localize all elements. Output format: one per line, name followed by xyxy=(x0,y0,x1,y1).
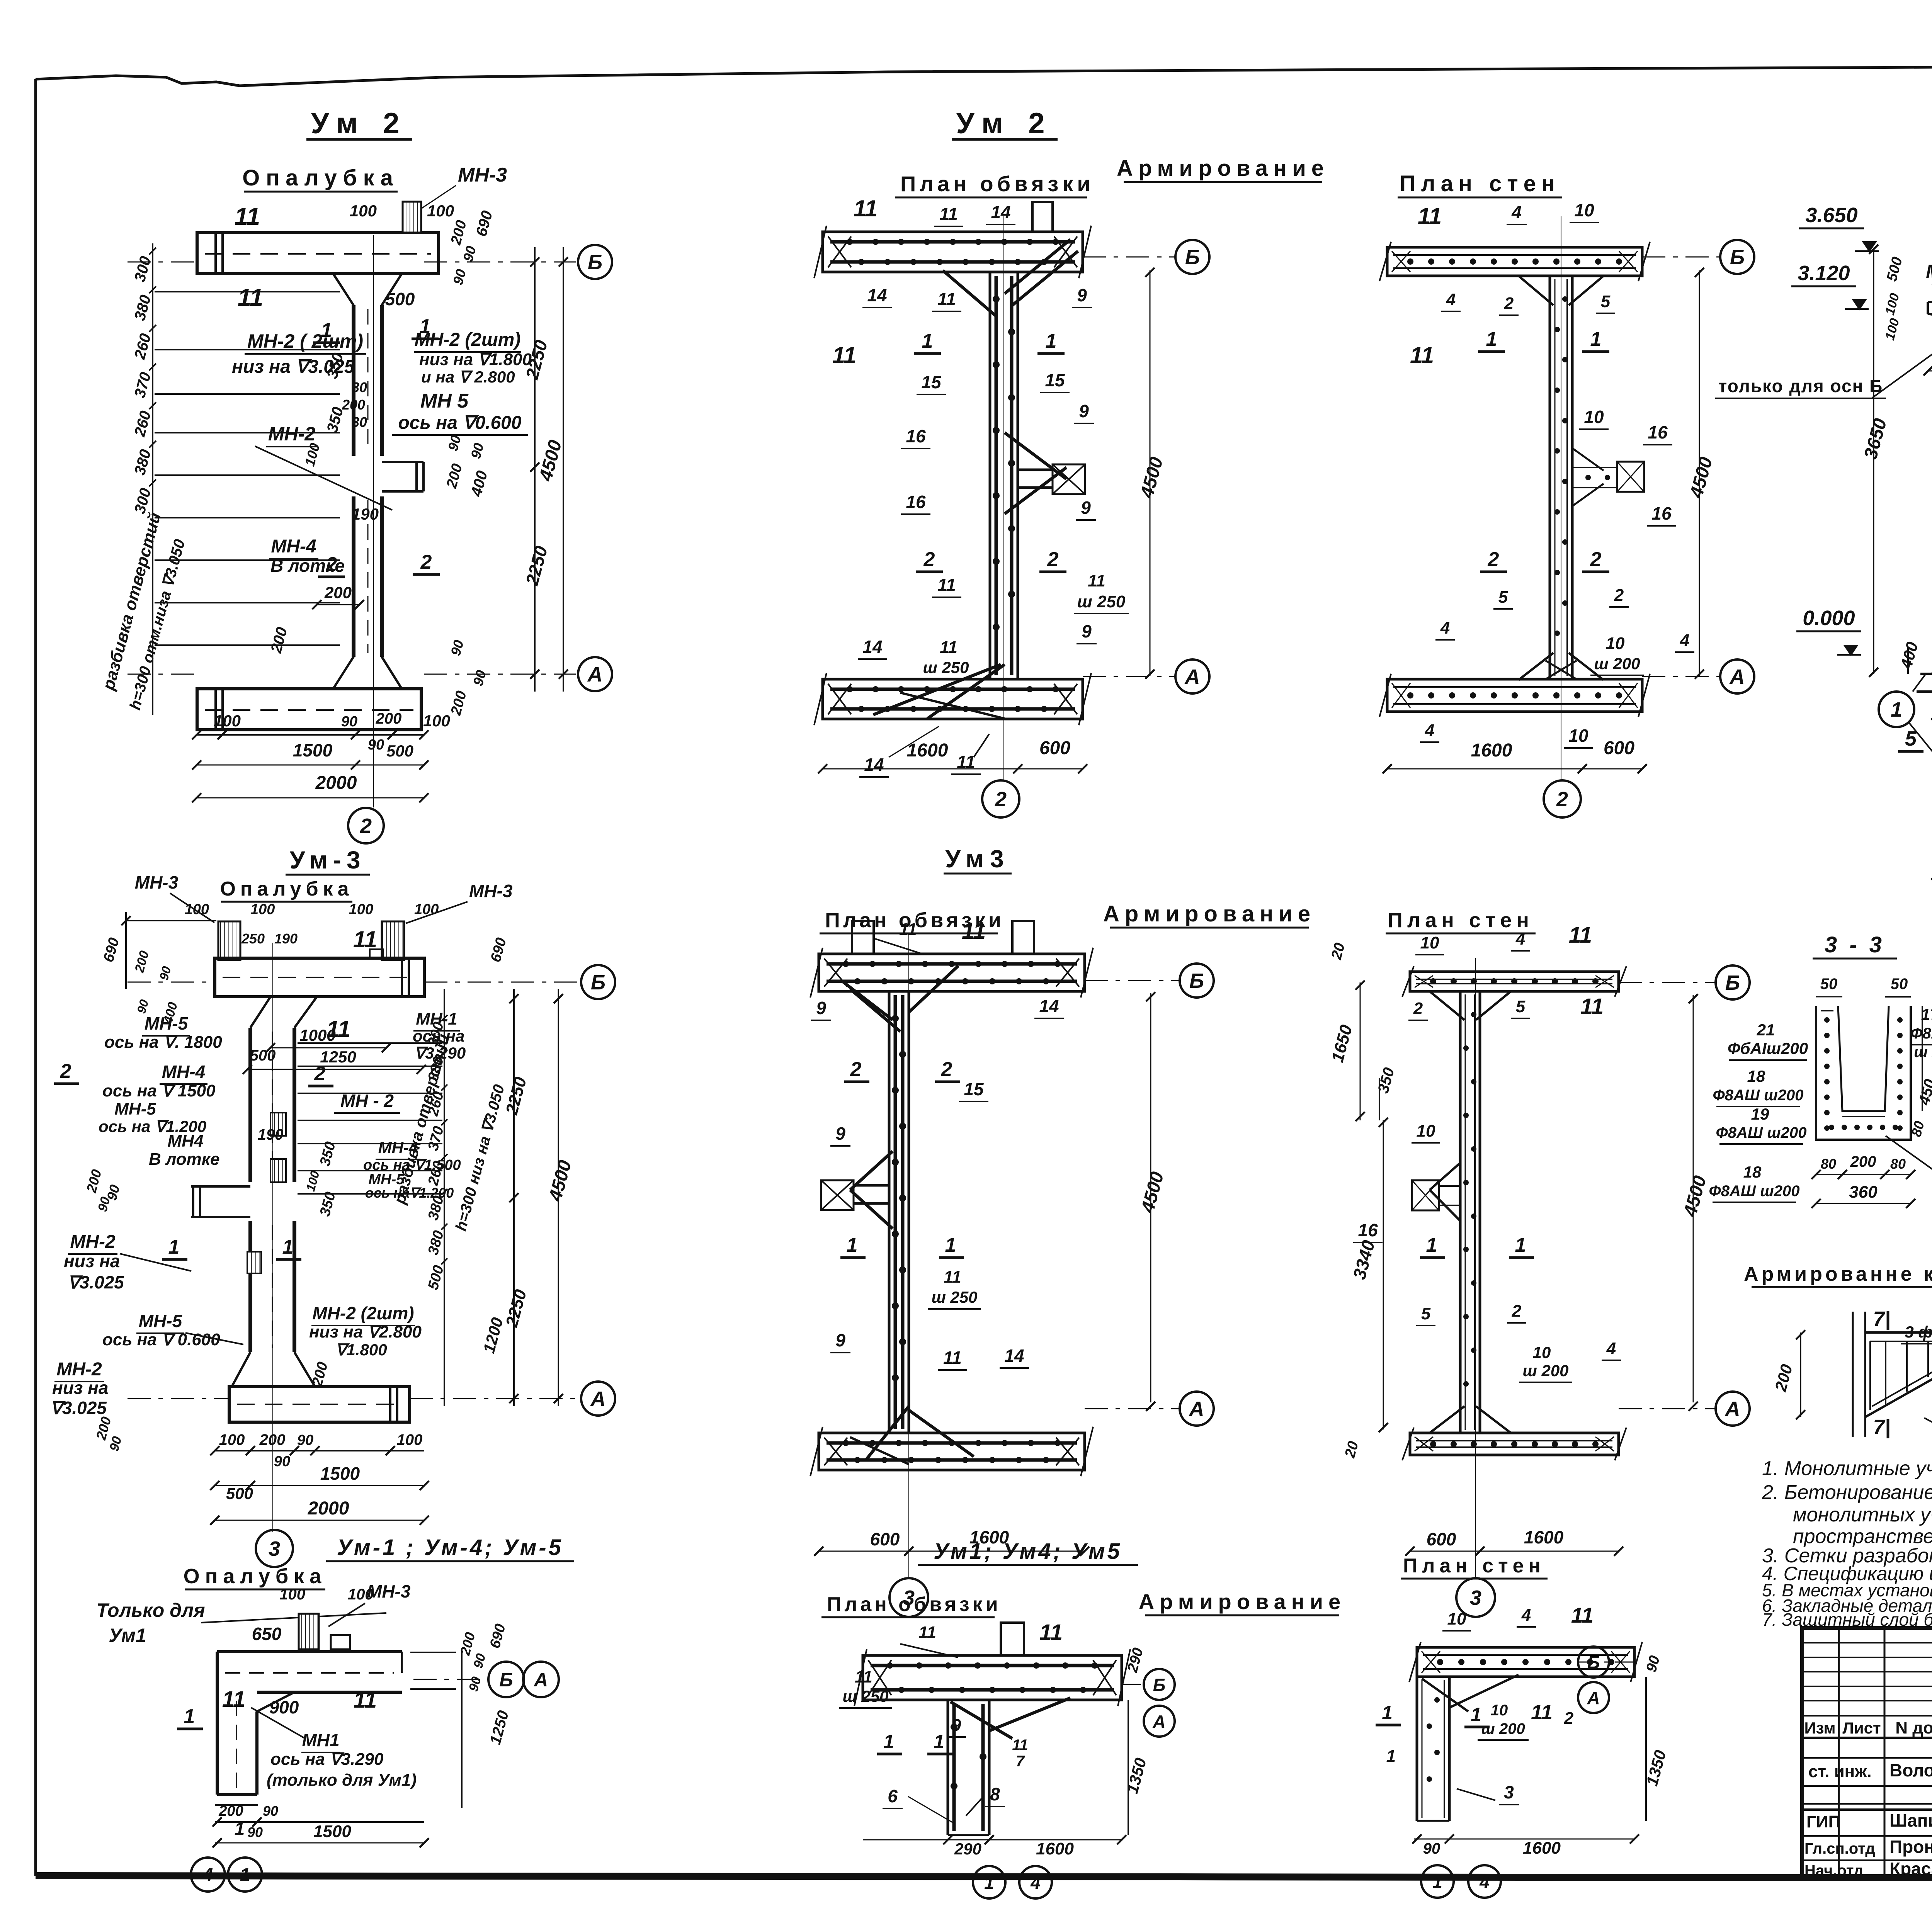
svg-text:200: 200 xyxy=(218,1803,243,1819)
col3 axis xyxy=(1642,257,1719,258)
svg-text:10: 10 xyxy=(1420,933,1439,952)
svg-text:1600: 1600 xyxy=(1036,1839,1074,1858)
row3 col2 axis bubbles xyxy=(1122,1684,1144,1685)
svg-text:2: 2 xyxy=(1512,1302,1522,1321)
svg-text:Пронин: Пронин xyxy=(1889,1837,1932,1857)
svg-text:1: 1 xyxy=(420,315,431,338)
svg-text:1: 1 xyxy=(1590,328,1602,350)
svg-text:11: 11 xyxy=(1039,1620,1063,1645)
svg-text:Армирование: Армирование xyxy=(1117,156,1329,181)
svg-text:5: 5 xyxy=(1516,997,1526,1016)
svg-text:Шапиро: Шапиро xyxy=(1889,1810,1932,1830)
svg-text:30: 30 xyxy=(352,414,367,430)
Um-3 formwork top flange xyxy=(215,958,424,997)
title block left grid rows xyxy=(1802,1642,1932,1643)
svg-text:2000: 2000 xyxy=(315,773,357,793)
Um-3 mid-left stub xyxy=(191,1185,250,1188)
wall diag braces xyxy=(1519,276,1553,305)
svg-text:80: 80 xyxy=(1821,1156,1836,1172)
Um2 rebar diagonals bottom xyxy=(873,665,1001,715)
svg-text:4: 4 xyxy=(1521,1606,1531,1625)
row2 col3 web wall xyxy=(1459,991,1462,1433)
svg-text:1: 1 xyxy=(1432,1872,1442,1892)
svg-text:3: 3 xyxy=(1504,1782,1514,1802)
svg-text:Б: Б xyxy=(1189,969,1204,993)
wall top flange xyxy=(1387,247,1642,276)
svg-text:низ на: низ на xyxy=(52,1378,109,1398)
svg-text:Армированне консоли: Армированне консоли xyxy=(1744,1263,1932,1285)
svg-text:4: 4 xyxy=(1425,721,1434,740)
svg-text:Армирование: Армирование xyxy=(1103,901,1316,926)
svg-text:5: 5 xyxy=(1421,1304,1431,1323)
svg-text:А: А xyxy=(1729,665,1745,688)
svg-text:Опалубка: Опалубка xyxy=(184,1565,327,1588)
svg-text:Ум 2: Ум 2 xyxy=(311,107,408,140)
svg-text:В лотке: В лотке xyxy=(149,1150,220,1169)
row3 col2 diagonals xyxy=(989,1698,1070,1731)
svg-text:18: 18 xyxy=(1743,1163,1762,1181)
svg-text:11: 11 xyxy=(944,1268,961,1287)
svg-text:90: 90 xyxy=(1423,1840,1440,1857)
svg-text:1: 1 xyxy=(168,1236,180,1258)
svg-text:3: 3 xyxy=(269,1537,280,1560)
col3 vertical dim 4500 xyxy=(1699,270,1700,676)
row3 col3 L wall xyxy=(1417,1647,1634,1677)
svg-text:∇1.800: ∇1.800 xyxy=(335,1341,387,1359)
svg-text:2: 2 xyxy=(420,551,432,573)
svg-text:2: 2 xyxy=(941,1058,952,1081)
row2 col3 diagonals xyxy=(1430,991,1464,1020)
row3 col1 L formwork xyxy=(299,1614,319,1649)
svg-text:1: 1 xyxy=(934,1731,944,1752)
Um2 mid stub right xyxy=(382,461,423,463)
row2 col2 axis xyxy=(1085,980,1179,981)
svg-text:9: 9 xyxy=(835,1123,845,1144)
svg-text:Только для: Только для xyxy=(96,1599,205,1621)
Um-3 web bottom taper xyxy=(232,1352,250,1387)
svg-text:900: 900 xyxy=(269,1697,299,1717)
svg-text:ГИП: ГИП xyxy=(1806,1812,1840,1831)
row2 col2 diagonals xyxy=(842,981,893,1020)
svg-text:1500: 1500 xyxy=(293,740,333,760)
svg-text:2: 2 xyxy=(1614,586,1624,605)
row2 col3 top flange wall xyxy=(1410,972,1619,991)
Um2 rebar web xyxy=(989,272,992,679)
svg-text:11: 11 xyxy=(1012,1737,1028,1754)
row2 col2 bottom dims xyxy=(819,1551,1085,1552)
svg-text:14: 14 xyxy=(1004,1346,1024,1366)
svg-text:21: 21 xyxy=(1757,1021,1775,1039)
svg-text:МН 5: МН 5 xyxy=(420,390,469,412)
svg-text:Армирование: Армирование xyxy=(1139,1589,1346,1614)
svg-text:80: 80 xyxy=(1890,1156,1906,1172)
svg-text:100: 100 xyxy=(423,712,450,730)
svg-text:11: 11 xyxy=(937,289,956,309)
svg-text:190: 190 xyxy=(258,1126,284,1143)
Um2 web bottom taper xyxy=(333,657,354,689)
svg-text:ст. инж.: ст. инж. xyxy=(1808,1762,1872,1781)
svg-text:2: 2 xyxy=(1413,999,1423,1018)
svg-text:1: 1 xyxy=(184,1705,195,1728)
pillar stub top right xyxy=(1032,202,1053,232)
svg-text:9: 9 xyxy=(816,998,826,1018)
svg-text:МН-2 ( 2шт): МН-2 ( 2шт) xyxy=(247,330,363,352)
svg-text:16: 16 xyxy=(906,426,926,446)
svg-text:16: 16 xyxy=(1648,422,1668,442)
Um-3 leaders right side xyxy=(298,1042,442,1044)
svg-text:1600: 1600 xyxy=(1471,740,1512,761)
svg-text:МН-4: МН-4 xyxy=(378,1139,418,1157)
Um2 left dimension chain xyxy=(152,243,153,715)
svg-text:1600: 1600 xyxy=(907,740,948,761)
svg-text:2. Бетонирование консолей и: 2. Бетонирование консолей и лотков вести… xyxy=(1762,1481,1932,1504)
svg-text:9: 9 xyxy=(835,1330,845,1350)
svg-text:600: 600 xyxy=(870,1529,900,1549)
row2 col2 stubs xyxy=(852,921,874,954)
Um2 col2 axis xyxy=(1083,257,1175,258)
svg-text:1500: 1500 xyxy=(313,1822,351,1841)
svg-text:11: 11 xyxy=(1418,203,1442,229)
svg-text:6: 6 xyxy=(888,1786,898,1806)
svg-text:250: 250 xyxy=(241,931,265,947)
svg-text:11: 11 xyxy=(854,195,878,221)
svg-text:А: А xyxy=(590,1387,606,1411)
svg-text:Ум1; Ум4; Ум5: Ум1; Ум4; Ум5 xyxy=(934,1539,1122,1564)
svg-text:МН-3: МН-3 xyxy=(469,881,513,901)
svg-text:4: 4 xyxy=(1680,631,1689,650)
svg-text:МН-4: МН-4 xyxy=(162,1062,205,1082)
svg-text:11: 11 xyxy=(238,284,263,311)
svg-text:План обвязки: План обвязки xyxy=(900,172,1094,196)
svg-text:3 ф 10 А Ш: 3 ф 10 А Ш xyxy=(1905,1323,1932,1341)
svg-text:Ф8АШ ш200: Ф8АШ ш200 xyxy=(1713,1087,1804,1104)
svg-text:11: 11 xyxy=(1580,994,1604,1019)
svg-text:2: 2 xyxy=(1504,294,1514,313)
row3 col3 diag xyxy=(1449,1675,1519,1708)
Um-3 formwork bottom flange xyxy=(229,1387,410,1422)
svg-text:ось на ∇. 1800: ось на ∇. 1800 xyxy=(104,1033,222,1052)
svg-text:МН-2: МН-2 xyxy=(268,423,315,445)
svg-text:4: 4 xyxy=(1606,1339,1616,1358)
svg-text:МН3: МН3 xyxy=(1926,261,1932,282)
svg-text:Б: Б xyxy=(1587,1652,1600,1672)
svg-text:2: 2 xyxy=(923,548,935,571)
svg-text:190: 190 xyxy=(274,931,298,947)
svg-text:МН-5: МН-5 xyxy=(139,1311,183,1331)
svg-text:5: 5 xyxy=(1498,588,1508,607)
svg-text:Б: Б xyxy=(591,971,605,994)
svg-text:600: 600 xyxy=(1604,738,1634,758)
row3 col2 bottom dims xyxy=(863,1839,1122,1841)
svg-text:МН - 2: МН - 2 xyxy=(340,1091,394,1111)
svg-text:10: 10 xyxy=(1533,1343,1551,1361)
svg-text:11: 11 xyxy=(832,342,856,368)
svg-text:7: 7 xyxy=(1016,1753,1025,1770)
grid axis extensions left col1 xyxy=(128,262,195,263)
svg-text:Нач.отд: Нач.отд xyxy=(1804,1862,1863,1879)
svg-text:90: 90 xyxy=(263,1803,278,1819)
svg-text:100: 100 xyxy=(279,1586,305,1603)
svg-text:100: 100 xyxy=(427,202,454,220)
svg-text:90: 90 xyxy=(297,1432,313,1448)
svg-text:600: 600 xyxy=(1427,1529,1456,1549)
svg-text:14: 14 xyxy=(1039,996,1059,1016)
svg-text:МН-5: МН-5 xyxy=(145,1013,189,1033)
svg-text:4: 4 xyxy=(1515,930,1525,948)
svg-text:290: 290 xyxy=(954,1840,981,1858)
svg-text:11: 11 xyxy=(939,204,958,224)
svg-text:ш 250: ш 250 xyxy=(842,1687,888,1705)
svg-text:Б: Б xyxy=(1725,971,1740,994)
svg-text:ось на ∇ 0.600: ось на ∇ 0.600 xyxy=(102,1330,220,1349)
svg-text:10: 10 xyxy=(1447,1609,1466,1628)
svg-text:Ум1: Ум1 xyxy=(109,1625,146,1646)
section 3-3 U channel xyxy=(1816,1006,1911,1140)
svg-text:190: 190 xyxy=(352,505,379,523)
svg-text:100: 100 xyxy=(250,901,275,918)
svg-text:600: 600 xyxy=(1039,738,1070,758)
svg-text:9: 9 xyxy=(952,1716,961,1735)
row3 col2 L rebar xyxy=(1001,1623,1024,1655)
svg-text:100: 100 xyxy=(349,901,373,918)
svg-text:5: 5 xyxy=(1601,292,1611,311)
svg-text:100: 100 xyxy=(219,1431,245,1448)
row2 col3 axis xyxy=(1619,982,1716,983)
svg-text:МН-3: МН-3 xyxy=(367,1581,411,1601)
svg-text:1: 1 xyxy=(1515,1234,1526,1256)
svg-text:ш 200: ш 200 xyxy=(1481,1720,1525,1737)
svg-text:МН-3: МН-3 xyxy=(135,872,179,892)
svg-text:1600: 1600 xyxy=(1524,1527,1564,1547)
svg-text:А: А xyxy=(1725,1397,1740,1421)
svg-text:2: 2 xyxy=(60,1060,71,1083)
svg-text:30: 30 xyxy=(352,379,367,395)
svg-text:монолитных участков стен. А: монолитных участков стен. Арматурные сте… xyxy=(1793,1504,1932,1526)
svg-text:100: 100 xyxy=(185,901,209,918)
svg-text:МН-2: МН-2 xyxy=(56,1359,102,1380)
svg-text:11: 11 xyxy=(940,638,957,657)
svg-text:15: 15 xyxy=(1045,370,1065,390)
svg-text:Ф8АШ: Ф8АШ xyxy=(1910,1025,1932,1042)
svg-text:90: 90 xyxy=(274,1453,290,1470)
svg-text:11: 11 xyxy=(1569,923,1592,948)
svg-text:1: 1 xyxy=(1891,698,1902,721)
svg-text:1: 1 xyxy=(1486,328,1497,350)
svg-text:200: 200 xyxy=(324,583,352,602)
svg-text:100: 100 xyxy=(414,901,439,918)
svg-text:14: 14 xyxy=(864,755,884,775)
wall web xyxy=(1549,276,1551,679)
svg-text:90: 90 xyxy=(247,1824,263,1840)
svg-text:2: 2 xyxy=(995,788,1007,811)
svg-text:ш 200: ш 200 xyxy=(1594,654,1640,673)
svg-text:ось на ∇ 1500: ось на ∇ 1500 xyxy=(102,1081,216,1100)
svg-text:200: 200 xyxy=(259,1431,286,1448)
svg-text:Ф8АШ ш200: Ф8АШ ш200 xyxy=(1716,1124,1807,1141)
Um2 formwork bottom flange xyxy=(197,689,421,730)
svg-text:4: 4 xyxy=(1030,1873,1041,1893)
svg-text:1: 1 xyxy=(240,1865,250,1885)
svg-text:ш 200: ш 200 xyxy=(1522,1361,1568,1380)
svg-text:100: 100 xyxy=(214,712,241,730)
svg-text:200: 200 xyxy=(1850,1153,1876,1170)
console detail drawing xyxy=(1852,1312,1854,1437)
svg-text:А: А xyxy=(1152,1711,1165,1732)
svg-text:Лист: Лист xyxy=(1842,1719,1881,1737)
section 1-1 dim vertical xyxy=(1873,248,1874,674)
svg-text:Опалубка: Опалубка xyxy=(242,165,399,190)
row2 col2 bottom flange xyxy=(819,1433,1085,1470)
svg-text:2: 2 xyxy=(326,553,337,576)
Um2 mid stub right rebar xyxy=(1053,464,1085,494)
grid axis verticals row2 xyxy=(272,943,273,1532)
Um-3 web taper xyxy=(250,997,270,1028)
svg-text:19: 19 xyxy=(1751,1105,1769,1123)
svg-text:9: 9 xyxy=(1082,621,1092,641)
col3 bottom flange xyxy=(1387,679,1642,712)
svg-text:3.650: 3.650 xyxy=(1805,204,1857,227)
svg-text:11: 11 xyxy=(855,1667,872,1686)
svg-text:2: 2 xyxy=(1556,788,1568,811)
svg-text:50: 50 xyxy=(1891,976,1908,993)
svg-text:10: 10 xyxy=(1584,407,1604,427)
Um-3 top stubs with plates xyxy=(218,921,240,960)
svg-text:План обвязки: План обвязки xyxy=(827,1593,1001,1616)
svg-text:А: А xyxy=(1189,1397,1204,1421)
svg-text:11: 11 xyxy=(937,575,956,595)
svg-text:Б: Б xyxy=(499,1669,513,1691)
svg-text:3 - 3: 3 - 3 xyxy=(1825,932,1885,957)
svg-text:10: 10 xyxy=(1606,634,1625,653)
svg-text:Ум-1 ; Ум-4; Ум-5: Ум-1 ; Ум-4; Ум-5 xyxy=(337,1535,563,1560)
row2 col2 web rebar xyxy=(888,991,891,1433)
svg-text:11: 11 xyxy=(899,920,917,939)
svg-text:100: 100 xyxy=(397,1431,423,1448)
svg-text:7|: 7| xyxy=(1873,1307,1890,1331)
Um2 rebar diagonals top xyxy=(1005,240,1070,294)
svg-text:МН-5: МН-5 xyxy=(114,1100,156,1118)
row2 col2 mid-left stub xyxy=(821,1180,854,1210)
svg-text:10: 10 xyxy=(1574,200,1594,220)
Um-3 small embed plates on web xyxy=(270,1113,286,1136)
Um2 axis lines and bubbles xyxy=(424,262,576,263)
svg-text:А: А xyxy=(1184,665,1200,688)
svg-text:1. Монолитные участки замар: 1. Монолитные участки замаркированы на л… xyxy=(1762,1457,1932,1480)
svg-text:500: 500 xyxy=(385,289,415,309)
row2 col3 bottom dims xyxy=(1410,1551,1619,1552)
Um2 web taper top xyxy=(333,274,354,305)
svg-text:10: 10 xyxy=(1568,726,1588,746)
row3 col3 axis xyxy=(1577,1662,1634,1663)
svg-text:2000: 2000 xyxy=(308,1498,349,1519)
svg-text:15: 15 xyxy=(964,1079,984,1099)
svg-text:1: 1 xyxy=(984,1873,994,1893)
svg-text:∇3.025: ∇3.025 xyxy=(68,1272,124,1292)
svg-text:4: 4 xyxy=(1440,619,1450,637)
col3 bottom dims xyxy=(1387,768,1642,770)
svg-text:9: 9 xyxy=(1079,401,1089,421)
svg-text:План стен: План стен xyxy=(1403,1555,1545,1577)
svg-text:Б: Б xyxy=(1185,246,1200,269)
svg-text:ш 250: ш 250 xyxy=(931,1288,977,1306)
Um2 col2 bottom flange xyxy=(823,679,1083,719)
svg-text:МН-2 (2шт): МН-2 (2шт) xyxy=(312,1303,414,1323)
svg-text:только для осн Б: только для осн Б xyxy=(1718,376,1883,396)
svg-text:90: 90 xyxy=(368,737,384,753)
svg-text:0.000: 0.000 xyxy=(1803,607,1855,630)
svg-text:ось на∇1.200: ось на∇1.200 xyxy=(365,1185,454,1201)
svg-text:1: 1 xyxy=(321,319,332,342)
svg-text:Красавин: Красавин xyxy=(1889,1859,1932,1879)
svg-text:ш 250: ш 250 xyxy=(1077,592,1126,611)
svg-text:2: 2 xyxy=(850,1058,862,1081)
svg-text:9: 9 xyxy=(1077,285,1087,305)
svg-text:16: 16 xyxy=(1651,503,1672,523)
row2 col3 bottom flange xyxy=(1410,1433,1619,1455)
svg-text:90: 90 xyxy=(341,714,357,730)
svg-text:15: 15 xyxy=(921,372,942,392)
svg-text:3.120: 3.120 xyxy=(1798,262,1850,285)
svg-text:16: 16 xyxy=(906,492,926,512)
svg-text:1: 1 xyxy=(1382,1702,1393,1723)
ATm1 axis bubble 1 xyxy=(1879,692,1914,727)
svg-text:11: 11 xyxy=(943,1348,962,1368)
svg-text:2: 2 xyxy=(1564,1709,1574,1728)
svg-text:4: 4 xyxy=(202,1865,213,1885)
svg-text:11: 11 xyxy=(1088,571,1105,590)
svg-text:Володин: Володин xyxy=(1889,1760,1932,1780)
svg-text:11: 11 xyxy=(1531,1701,1553,1724)
Um-3 web xyxy=(248,1028,252,1182)
svg-text:ось на ∇3.290: ось на ∇3.290 xyxy=(270,1750,384,1769)
row3 col1 bottom dims xyxy=(215,1821,424,1823)
svg-text:А: А xyxy=(587,663,603,686)
Um-3 right dims 2250 xyxy=(513,989,515,1406)
svg-text:50: 50 xyxy=(1820,976,1838,993)
svg-text:3: 3 xyxy=(1470,1586,1481,1609)
svg-text:7|: 7| xyxy=(1873,1416,1890,1439)
svg-text:200: 200 xyxy=(376,710,402,727)
svg-text:1500: 1500 xyxy=(320,1463,360,1484)
Um2 web xyxy=(352,305,355,456)
svg-text:1: 1 xyxy=(1046,330,1057,352)
svg-text:500: 500 xyxy=(226,1484,253,1502)
svg-text:1: 1 xyxy=(1386,1747,1396,1766)
svg-text:11: 11 xyxy=(1571,1603,1594,1627)
Um2 col2 vertical dim 4500 xyxy=(1150,270,1151,676)
svg-text:1: 1 xyxy=(945,1234,956,1256)
svg-text:А: А xyxy=(533,1669,548,1691)
title block left grid columns xyxy=(1838,1628,1840,1878)
svg-text:1: 1 xyxy=(1426,1234,1437,1256)
svg-text:9: 9 xyxy=(1081,498,1091,518)
row3 col1 axis xyxy=(413,1679,488,1680)
svg-text:План стен: План стен xyxy=(1400,171,1560,196)
svg-text:1: 1 xyxy=(922,330,933,352)
svg-text:11: 11 xyxy=(235,202,260,230)
page border frame xyxy=(34,79,37,1876)
svg-text:1250: 1250 xyxy=(320,1048,356,1066)
svg-text:1: 1 xyxy=(282,1236,294,1258)
svg-text:∇3.025: ∇3.025 xyxy=(50,1398,107,1418)
Um2 rebar top flange xyxy=(823,232,1083,272)
svg-text:11: 11 xyxy=(353,926,377,952)
svg-text:Б: Б xyxy=(588,251,602,274)
svg-text:11: 11 xyxy=(962,918,986,944)
svg-text:500: 500 xyxy=(386,742,413,760)
svg-text:ш 250: ш 250 xyxy=(923,658,969,676)
svg-text:Ум-3: Ум-3 xyxy=(290,846,366,874)
